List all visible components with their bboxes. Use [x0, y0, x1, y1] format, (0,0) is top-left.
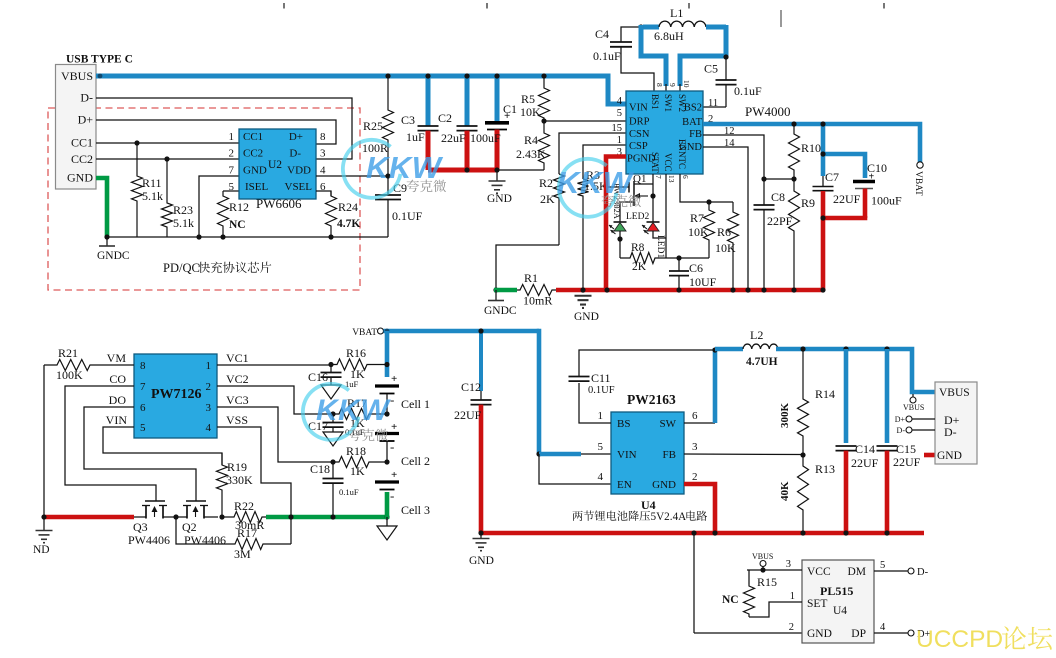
svg-text:U2: U2 — [268, 159, 282, 171]
capacitor C8 — [763, 179, 765, 205]
svg-text:6: 6 — [692, 410, 698, 422]
svg-text:40K: 40K — [779, 481, 791, 501]
svg-text:CC1: CC1 — [71, 136, 93, 150]
resistor R18 — [333, 457, 387, 468]
svg-text:R25: R25 — [363, 119, 383, 133]
resistor R7 — [706, 199, 711, 204]
wire GND green — [96, 178, 107, 237]
svg-text:NC: NC — [722, 594, 739, 606]
svg-text:4.7UH: 4.7UH — [746, 356, 778, 368]
svg-text:KKW: KKW — [316, 394, 391, 427]
svg-text:PW6606: PW6606 — [256, 196, 302, 211]
svg-text:R24: R24 — [338, 200, 358, 214]
wire VSEL to R24 — [316, 191, 331, 196]
svg-text:PW4406: PW4406 — [128, 533, 170, 547]
svg-text:+: + — [504, 110, 510, 122]
svg-text:11: 11 — [708, 98, 718, 109]
svg-text:VBUS: VBUS — [939, 387, 970, 399]
svg-text:FB: FB — [689, 129, 702, 140]
svg-text:-: - — [390, 392, 394, 407]
ground GND bottom-left — [43, 517, 45, 530]
wire cell3 minus green — [385, 492, 390, 519]
svg-text:BS1: BS1 — [650, 94, 660, 110]
resistor R13 — [798, 455, 809, 533]
svg-text:330K: 330K — [226, 473, 253, 487]
svg-text:GND: GND — [469, 555, 494, 567]
resistor R22 30mR — [222, 512, 266, 523]
resistor R24 — [326, 191, 337, 237]
resistor R19 — [217, 453, 228, 517]
svg-text:R7: R7 — [690, 211, 704, 225]
svg-text:22UF: 22UF — [833, 192, 861, 206]
capacitor C9 — [387, 176, 389, 195]
svg-text:15: 15 — [612, 123, 623, 134]
svg-text:DRP: DRP — [629, 117, 650, 128]
svg-text:SET: SET — [807, 598, 827, 610]
svg-text:5.1k: 5.1k — [142, 189, 163, 203]
svg-text:2: 2 — [692, 471, 698, 483]
svg-text:C11: C11 — [591, 371, 611, 385]
IC U4 PW2163 chip body — [611, 412, 684, 494]
node cell1/cell2 — [384, 362, 389, 367]
svg-text:+: + — [391, 421, 397, 433]
svg-text:R4: R4 — [524, 133, 538, 147]
svg-text:+: + — [869, 172, 875, 183]
svg-text:DM: DM — [847, 566, 866, 578]
ground GND below C12 — [480, 533, 482, 538]
ground triangle below battery — [386, 517, 388, 526]
svg-text:+: + — [391, 373, 397, 385]
svg-text:2: 2 — [229, 148, 235, 160]
svg-text:D-: D- — [289, 148, 301, 160]
node DRP junction — [541, 118, 546, 123]
resistor R12 (NC) — [218, 191, 229, 237]
wire D+ net — [96, 120, 336, 144]
svg-text:R6: R6 — [717, 225, 731, 239]
svg-text:+: + — [391, 469, 397, 481]
IC U5 PL515 chip body — [802, 560, 874, 643]
svg-text:C3: C3 — [401, 113, 415, 127]
svg-text:R8: R8 — [631, 242, 645, 254]
svg-text:VC2: VC2 — [226, 372, 249, 386]
svg-text:CC2: CC2 — [243, 148, 263, 160]
node bus junctions — [196, 234, 201, 239]
svg-text:4: 4 — [206, 422, 212, 434]
terminal VBAT top — [917, 162, 923, 168]
node cell2/cell3 — [384, 459, 389, 464]
resistor R5 — [541, 73, 546, 78]
node R10/R9 — [791, 176, 796, 181]
dashed box PD/QC section — [48, 108, 360, 290]
svg-text:VBAT: VBAT — [352, 328, 377, 338]
capacitor C11 and BS wire — [579, 383, 611, 423]
inductor L2 — [743, 344, 778, 349]
capacitor C15 — [885, 349, 890, 443]
svg-text:R22: R22 — [234, 499, 254, 513]
watermark KKW top — [343, 140, 444, 198]
svg-text:R10: R10 — [801, 141, 821, 155]
svg-text:4: 4 — [320, 165, 326, 177]
svg-text:VCC: VCC — [663, 153, 673, 172]
svg-text:22PF: 22PF — [767, 214, 793, 228]
svg-text:PD/QC: PD/QC — [163, 261, 200, 275]
svg-text:KKW: KKW — [557, 165, 635, 200]
svg-text:DP: DP — [851, 628, 866, 640]
wire GND pin2 of U4 red — [684, 484, 715, 535]
svg-text:-: - — [390, 439, 394, 454]
wire CC2 — [96, 158, 239, 160]
IC U1 PW4000 chip body — [626, 91, 703, 174]
svg-text:BAT: BAT — [682, 117, 702, 128]
node VC3 — [330, 459, 335, 464]
svg-text:U4: U4 — [641, 498, 656, 512]
wire GNDC green segment — [494, 288, 517, 293]
wire GND red bus top — [428, 168, 497, 173]
svg-text:CSP: CSP — [629, 141, 648, 152]
ground GND below bus — [580, 287, 585, 292]
svg-text:1: 1 — [229, 131, 235, 143]
wire D- net — [96, 98, 352, 159]
wire SW to L2 — [684, 422, 715, 424]
node FB divider — [800, 452, 805, 457]
svg-text:R23: R23 — [173, 203, 193, 217]
wire to R17 3M — [176, 517, 233, 544]
svg-text:VSEL: VSEL — [285, 181, 313, 193]
svg-text:1K: 1K — [350, 464, 365, 478]
wire 5V blue bus — [776, 349, 935, 392]
svg-text:0.1UF: 0.1UF — [392, 209, 423, 223]
svg-text:CC1: CC1 — [243, 131, 263, 143]
svg-text:R11: R11 — [142, 176, 162, 190]
svg-text:C6: C6 — [689, 261, 703, 275]
svg-text:R19: R19 — [227, 460, 247, 474]
node GNDC (current sense) — [493, 287, 498, 292]
wire BS2 pin 11 — [703, 106, 726, 108]
resistor R11 — [134, 140, 139, 145]
svg-text:5: 5 — [617, 108, 622, 119]
capacitor C12 — [479, 333, 483, 391]
capacitor C3 — [426, 76, 431, 126]
svg-text:C16: C16 — [308, 370, 328, 384]
svg-text:22UF: 22UF — [893, 455, 921, 469]
node FB/C8 — [761, 176, 766, 181]
svg-text:C4: C4 — [595, 27, 609, 41]
svg-text:10mR: 10mR — [523, 294, 552, 308]
svg-text:R12: R12 — [229, 200, 249, 214]
LED1 red — [647, 221, 660, 223]
svg-text:PW4000: PW4000 — [745, 104, 791, 119]
svg-text:D-: D- — [917, 567, 929, 578]
svg-text:ND: ND — [33, 544, 50, 556]
svg-text:100uF: 100uF — [871, 194, 902, 208]
svg-text:3M: 3M — [234, 547, 251, 561]
svg-text:5V2.4A: 5V2.4A — [651, 511, 687, 523]
svg-text:-: - — [390, 488, 394, 503]
capacitor C1 polarized — [495, 76, 500, 121]
resistor R15 (NC) — [748, 570, 750, 584]
ground under R3 — [580, 287, 585, 292]
svg-text:7: 7 — [140, 381, 146, 393]
wire DM to D- terminal — [874, 570, 908, 572]
svg-text:R2: R2 — [539, 176, 553, 190]
svg-text:5.1k: 5.1k — [173, 216, 194, 230]
resistor R14 — [798, 349, 809, 455]
svg-text:1: 1 — [617, 135, 622, 146]
svg-text:Q2: Q2 — [182, 520, 197, 534]
svg-text:C7: C7 — [825, 170, 839, 184]
svg-text:10UF: 10UF — [689, 275, 717, 289]
svg-text:C14: C14 — [855, 442, 875, 456]
wire STAT pin stub — [652, 174, 654, 196]
svg-text:R18: R18 — [346, 444, 366, 458]
node R19/Q2/R22 — [219, 514, 224, 519]
resistor R4 — [539, 121, 550, 170]
svg-text:4: 4 — [880, 622, 886, 633]
terminal VBUS for PL515 — [760, 561, 766, 567]
svg-text:30mR: 30mR — [235, 518, 264, 532]
resistor R25 — [385, 73, 390, 78]
svg-text:LED2: LED2 — [626, 212, 649, 222]
svg-text:6: 6 — [681, 175, 690, 179]
svg-text:R5: R5 — [521, 92, 535, 106]
svg-text:KKW: KKW — [366, 150, 444, 185]
USB Type-C connector J1 — [56, 65, 97, 190]
inductor L1 — [621, 27, 641, 42]
svg-text:4: 4 — [617, 96, 623, 107]
svg-text:D-: D- — [897, 426, 906, 435]
node R8/C6 junction — [676, 255, 681, 260]
resistor R3 — [583, 145, 626, 179]
svg-text:10K: 10K — [715, 241, 736, 255]
resistor R16 — [331, 359, 387, 370]
resistor R2 — [559, 133, 626, 174]
resistor R8 — [620, 253, 679, 264]
connector VBUS output — [935, 382, 977, 464]
wire GNDC bus — [107, 236, 388, 238]
svg-text:ENNTC: ENNTC — [677, 139, 687, 169]
svg-text:GND: GND — [67, 171, 93, 185]
wire LED2 cathode to R8 — [619, 231, 621, 239]
svg-text:SW2: SW2 — [677, 94, 687, 112]
svg-text:4: 4 — [598, 471, 604, 483]
svg-text:0.1uF: 0.1uF — [593, 49, 621, 63]
svg-text:3: 3 — [692, 441, 698, 453]
node VC2 — [330, 411, 335, 416]
svg-text:1: 1 — [206, 360, 212, 372]
svg-text:D+: D+ — [895, 415, 906, 424]
wire green cell3- bus — [266, 515, 387, 520]
op-amp U2 PW6606 chip body — [239, 129, 316, 199]
resistor R1 10mR — [517, 285, 556, 296]
svg-text:VM: VM — [107, 351, 127, 365]
svg-text:1: 1 — [790, 591, 795, 602]
wire DO to Q2 gate — [84, 407, 196, 501]
svg-text:L2: L2 — [750, 328, 763, 342]
svg-text:9: 9 — [668, 83, 677, 87]
svg-text:0.1UF: 0.1UF — [588, 385, 615, 396]
svg-text:VBAT: VBAT — [913, 171, 923, 196]
svg-text:C12: C12 — [461, 380, 481, 394]
svg-text:GND: GND — [487, 193, 512, 205]
svg-text:2: 2 — [789, 622, 794, 633]
svg-text:VIN: VIN — [629, 103, 648, 114]
svg-text:C15: C15 — [896, 442, 916, 456]
wire VDD — [316, 175, 388, 177]
svg-text:SW1: SW1 — [663, 94, 673, 112]
wire FB to divider — [684, 453, 803, 456]
capacitor C7 — [821, 124, 826, 176]
watermark KKW middle — [557, 159, 635, 217]
capacitor C4 — [610, 41, 632, 43]
svg-text:GNDC: GNDC — [97, 250, 130, 262]
resistor R23 — [164, 156, 169, 161]
wire EN ties VIN — [539, 454, 611, 484]
wire DP to D+ terminal — [874, 632, 908, 634]
svg-text:D+: D+ — [289, 131, 303, 143]
svg-text:SW: SW — [660, 418, 677, 430]
svg-text:VIN: VIN — [106, 413, 128, 427]
svg-text:7: 7 — [654, 175, 663, 179]
node GNDC junction — [104, 234, 109, 239]
svg-text:2.43K: 2.43K — [516, 147, 546, 161]
svg-text:VCC: VCC — [807, 566, 831, 578]
svg-text:USB TYPE C: USB TYPE C — [66, 54, 133, 66]
wire PGND red — [606, 157, 626, 291]
svg-text:22UF: 22UF — [851, 456, 879, 470]
svg-text:DO: DO — [109, 393, 127, 407]
resistor R21 — [44, 360, 134, 371]
svg-text:GNDC: GNDC — [484, 305, 517, 317]
svg-text:C8: C8 — [771, 190, 785, 204]
resistor R17 3M — [233, 539, 291, 550]
wire R4 bottom to gnd bus — [497, 169, 544, 171]
ground GNDC — [106, 237, 108, 246]
svg-text:VC1: VC1 — [226, 351, 249, 365]
svg-text:13: 13 — [667, 175, 676, 183]
svg-text:D-: D- — [80, 91, 93, 105]
svg-text:CSN: CSN — [629, 129, 650, 140]
svg-text:VDD: VDD — [287, 165, 311, 177]
wire SET — [749, 602, 802, 617]
wire C7 branch blue — [823, 154, 865, 178]
wire red GND bus bottom — [481, 531, 924, 536]
wire CC1 — [96, 142, 239, 144]
svg-text:C5: C5 — [704, 62, 718, 76]
svg-text:22UF: 22UF — [454, 408, 482, 422]
svg-text:ISEL: ISEL — [245, 181, 269, 193]
svg-text:Cell 3: Cell 3 — [401, 503, 430, 517]
resistor R6 — [728, 202, 739, 290]
wire SW2 blue — [680, 25, 726, 86]
LED2 green — [614, 221, 627, 223]
wire C10/C7 red to bus — [823, 216, 865, 290]
svg-text:D-: D- — [944, 425, 957, 439]
node VDD junction — [385, 173, 390, 178]
svg-text:8: 8 — [140, 360, 146, 372]
resistor R9 — [789, 179, 800, 290]
wire main GND red bus (top section) — [556, 288, 823, 293]
svg-text:PL515: PL515 — [820, 584, 853, 598]
capacitor C2 — [465, 76, 470, 126]
svg-text:R21: R21 — [58, 346, 78, 360]
tick marks — [283, 3, 285, 9]
wire GND pin14 — [703, 147, 748, 290]
svg-text:5: 5 — [880, 560, 885, 571]
svg-text:1: 1 — [598, 410, 604, 422]
svg-text:UCCPD: UCCPD — [916, 626, 1003, 653]
svg-text:L1: L1 — [670, 6, 683, 20]
svg-text:2K: 2K — [540, 192, 555, 206]
watermark KKW battery — [303, 384, 391, 440]
svg-text:10: 10 — [682, 80, 691, 88]
svg-text:BS: BS — [617, 418, 630, 430]
transistor Q2 PW4406 — [174, 516, 187, 518]
terminal VBUS small — [912, 394, 914, 397]
svg-text:2: 2 — [206, 381, 212, 393]
wire VCC — [747, 569, 802, 571]
svg-text:C18: C18 — [310, 462, 330, 476]
svg-text:PW7126: PW7126 — [151, 387, 202, 402]
svg-text:U4: U4 — [833, 605, 847, 617]
svg-text:GND: GND — [574, 311, 599, 323]
wire FB net — [703, 135, 764, 179]
svg-text:VC3: VC3 — [226, 393, 249, 407]
svg-text:Q3: Q3 — [133, 520, 148, 534]
svg-text:VBUS: VBUS — [752, 552, 773, 561]
svg-text:R14: R14 — [815, 387, 835, 401]
wire red GND rail bottom-left — [44, 515, 134, 520]
svg-text:0.1uF: 0.1uF — [734, 84, 762, 98]
resistor R17 1K — [333, 409, 387, 420]
svg-text:R16: R16 — [346, 346, 366, 360]
svg-text:PW4406: PW4406 — [184, 533, 226, 547]
svg-text:Cell 1: Cell 1 — [401, 397, 430, 411]
svg-text:VBUS: VBUS — [61, 69, 93, 83]
label buck circuit description — [573, 511, 650, 521]
wire R7 bottom to C6 node — [679, 257, 709, 259]
wire VC1 — [217, 364, 331, 366]
wire CO to Q3 gate — [65, 386, 156, 501]
svg-text:5: 5 — [229, 181, 235, 193]
capacitor C6 — [678, 258, 680, 271]
capacitor C10 polarized — [853, 180, 875, 183]
wire VIN to R19 — [103, 427, 222, 465]
svg-text:C2: C2 — [438, 111, 452, 125]
IC U3 PW7126 chip body — [134, 354, 217, 438]
svg-text:1uF: 1uF — [406, 130, 425, 144]
wire GND pin7 of U2 — [199, 176, 239, 237]
svg-text:3: 3 — [786, 559, 791, 570]
wire FB to R10/R9 node — [764, 178, 794, 180]
wire VC2 — [217, 386, 333, 414]
svg-text:Cell 2: Cell 2 — [401, 454, 430, 468]
svg-text:100uF: 100uF — [470, 131, 501, 145]
capacitor C18 — [332, 462, 334, 478]
svg-text:10K: 10K — [520, 105, 541, 119]
ground GND under C1 — [496, 170, 498, 181]
svg-text:VBUS: VBUS — [903, 403, 924, 412]
svg-text:VSS: VSS — [226, 413, 248, 427]
svg-text:100K: 100K — [56, 368, 83, 382]
svg-text:6: 6 — [140, 402, 146, 414]
svg-text:STAT: STAT — [650, 152, 660, 173]
wire VC3 — [217, 407, 333, 462]
svg-text:R1: R1 — [524, 271, 538, 285]
svg-text:2K: 2K — [632, 261, 647, 273]
svg-text:GND: GND — [937, 450, 962, 462]
svg-text:22uF: 22uF — [441, 131, 466, 145]
wire R17 3M right leg — [290, 517, 292, 544]
